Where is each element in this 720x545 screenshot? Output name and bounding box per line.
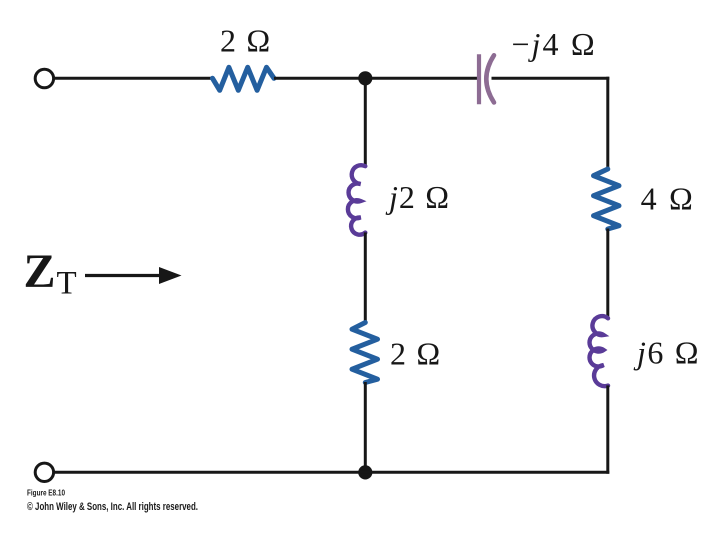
wire right branch lower [606, 385, 609, 473]
wire right branch middle [606, 229, 609, 319]
svg-text:j6 Ω: j6 Ω [633, 335, 700, 371]
terminal T1 top-left open circle [35, 69, 53, 87]
svg-text:−j4 Ω: −j4 Ω [512, 26, 598, 62]
wire bottom horizontal [54, 471, 610, 474]
resistor R1 2 ohm horizontal [213, 67, 275, 90]
node B bottom junction dot [358, 465, 372, 479]
wire node A to capacitor [365, 77, 479, 80]
wire capacitor to top-right corner [492, 77, 610, 80]
wire right branch upper [606, 77, 609, 170]
node A top junction dot [358, 71, 372, 85]
wire top-left horizontal [54, 77, 213, 80]
svg-text:Z: Z [24, 245, 56, 298]
svg-text:4 Ω: 4 Ω [641, 181, 696, 217]
wire middle branch upper [364, 78, 367, 166]
resistor R2 4 ohm vertical [594, 169, 620, 229]
svg-text:2 Ω: 2 Ω [220, 23, 272, 59]
wire middle branch lower [364, 382, 367, 472]
inductor L2 j6 ohm [590, 316, 608, 386]
svg-text:j2 Ω: j2 Ω [385, 179, 450, 215]
svg-text:2 Ω: 2 Ω [390, 335, 442, 371]
svg-text:© John Wiley & Sons, Inc. All: © John Wiley & Sons, Inc. All rights res… [27, 501, 198, 513]
resistor R3 2 ohm vertical [352, 323, 378, 383]
terminal T2 bottom-left open circle [35, 463, 53, 481]
inductor L1 j2 ohm [348, 165, 365, 234]
svg-text:T: T [57, 266, 77, 302]
arrow impedance direction [85, 274, 163, 277]
capacitor C1 -j4 ohm left plate [477, 54, 481, 104]
svg-text:Figure E8.10: Figure E8.10 [27, 489, 65, 498]
capacitor C1 -j4 ohm right curved plate [486, 55, 494, 102]
wire middle branch mid [364, 232, 367, 322]
wire R1 to node A [274, 77, 365, 80]
